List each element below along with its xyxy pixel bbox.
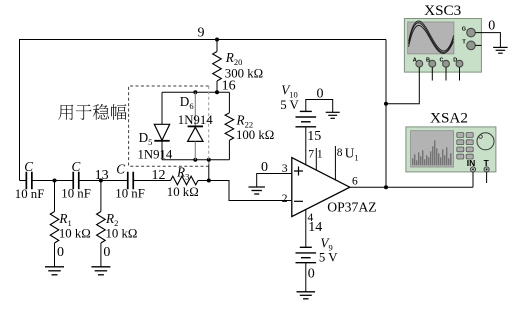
- svg-text:C: C: [24, 159, 33, 174]
- capacitor C1: [25, 172, 27, 190]
- wire C2 to node 13: [79, 180, 128, 182]
- ground V9: [297, 291, 316, 293]
- wire R1 top lead: [54, 181, 56, 212]
- svg-text:XSC3: XSC3: [424, 2, 461, 19]
- op-amp U1 OP37AZ: [292, 158, 350, 217]
- XSC3 terminal D: [456, 60, 463, 67]
- node 16 junction: [215, 90, 219, 94]
- node feedback bottom junction: [207, 158, 211, 162]
- svg-text:R3: R3: [176, 164, 189, 181]
- wire XSC3 C stub: [445, 67, 447, 80]
- svg-text:G: G: [462, 27, 466, 33]
- svg-text:5 V: 5 V: [319, 251, 338, 265]
- node 12 inverting junction: [207, 179, 211, 183]
- node 9 junction: [215, 38, 219, 42]
- op-amp minus sign: [294, 200, 303, 202]
- svg-text:D5: D5: [139, 130, 153, 147]
- wire R1 bottom lead: [54, 243, 56, 267]
- svg-text:5 V: 5 V: [280, 98, 299, 112]
- svg-text:9: 9: [198, 25, 205, 40]
- wire node 16 horizontal: [162, 91, 229, 93]
- svg-text:13: 13: [95, 168, 109, 183]
- svg-text:14: 14: [308, 220, 322, 235]
- svg-text:IN: IN: [467, 158, 476, 168]
- wire pin 1 stub: [315, 148, 317, 170]
- wire R3 to inverting node: [198, 180, 209, 182]
- wire pin 8 stub: [334, 146, 336, 180]
- svg-text:0: 0: [57, 245, 64, 260]
- svg-text:3: 3: [282, 163, 288, 175]
- battery V10: [300, 110, 312, 112]
- svg-text:R20: R20: [225, 50, 243, 67]
- svg-text:10 kΩ: 10 kΩ: [106, 226, 138, 240]
- XSA2 IN terminal: [470, 167, 475, 172]
- XSC3 terminal G: [467, 28, 476, 37]
- node output junction: [384, 185, 388, 189]
- svg-text:10 kΩ: 10 kΩ: [59, 226, 91, 240]
- instrument XSC3 oscilloscope icon: [404, 19, 481, 73]
- svg-text:0: 0: [103, 245, 110, 260]
- resistor R22: [225, 113, 234, 140]
- svg-text:16: 16: [222, 78, 236, 93]
- wire R20 bottom lead: [216, 81, 218, 92]
- wire XSC3 B stub: [431, 67, 433, 80]
- svg-text:12: 12: [152, 168, 166, 183]
- wire pin 7 supply lead: [305, 127, 307, 166]
- svg-text:1N914: 1N914: [178, 113, 213, 127]
- svg-text:10 nF: 10 nF: [15, 187, 45, 201]
- svg-text:A: A: [413, 57, 417, 63]
- XSA2 T terminal: [484, 167, 489, 172]
- node junction C1-R1: [53, 179, 57, 183]
- wire C1 to node C1R1: [32, 180, 73, 182]
- ground R2: [91, 266, 110, 268]
- svg-text:10 nF: 10 nF: [61, 187, 91, 201]
- label annotation chinese yong-yu-wen-fu: [58, 104, 126, 120]
- svg-text:XSA2: XSA2: [430, 110, 468, 127]
- wire R20 top lead: [216, 40, 218, 52]
- wire R22 top lead: [228, 92, 230, 113]
- node 13 junction: [99, 179, 103, 183]
- svg-text:10 kΩ: 10 kΩ: [167, 185, 199, 199]
- svg-text:OP37AZ: OP37AZ: [327, 200, 376, 215]
- svg-text:C: C: [440, 57, 444, 63]
- XSC3 terminal C: [443, 60, 450, 67]
- wire R2 bottom lead: [100, 243, 102, 267]
- wire XSC3 D stub: [459, 67, 461, 80]
- ground op-amp noninverting: [248, 186, 265, 188]
- ground XSC3: [493, 46, 508, 48]
- ground V10: [326, 111, 340, 113]
- svg-text:10 nF: 10 nF: [115, 187, 145, 201]
- svg-text:V10: V10: [281, 82, 298, 99]
- svg-text:C: C: [72, 159, 81, 174]
- wire bottom node to node 12: [208, 160, 210, 181]
- annotation dashed box amplitude stabilization: [129, 86, 209, 166]
- svg-text:100 kΩ: 100 kΩ: [236, 128, 274, 142]
- svg-text:B: B: [426, 57, 430, 63]
- wire D5 top lead: [161, 92, 163, 124]
- XSC3 terminal T: [467, 41, 476, 50]
- node D6 top junction: [193, 90, 197, 94]
- node A-wire junction: [384, 102, 388, 106]
- XSC3 terminal B: [429, 60, 436, 67]
- wire V9 to ground: [305, 263, 307, 292]
- resistor R3: [171, 176, 198, 185]
- wire XSC3 G to ground: [475, 33, 500, 48]
- wire left frame vertical: [19, 39, 21, 181]
- op-amp plus sign: [294, 167, 303, 176]
- wire XSA2 IN lead: [472, 172, 474, 187]
- svg-text:8: 8: [337, 147, 343, 159]
- wire op-amp noninverting to ground: [257, 174, 292, 188]
- XSC3 terminal A: [416, 60, 423, 67]
- svg-text:0: 0: [308, 267, 315, 282]
- capacitor C2: [72, 172, 74, 190]
- diode D6: [188, 125, 203, 127]
- wire D6 top lead: [194, 92, 196, 126]
- wire D5 bottom lead: [161, 142, 163, 160]
- svg-text:U1: U1: [345, 146, 359, 163]
- diode D5: [154, 124, 169, 140]
- svg-text:6: 6: [352, 176, 358, 188]
- wire RC ladder segment 1: [20, 180, 27, 182]
- wire D6 bottom lead: [194, 141, 196, 159]
- svg-text:0: 0: [488, 18, 495, 33]
- svg-text:D: D: [453, 57, 457, 63]
- wire V10 to ground: [306, 100, 333, 113]
- wire XSA2 T stub: [486, 172, 488, 183]
- node D6 bottom junction: [193, 158, 197, 162]
- wire pin 4 supply lead: [305, 209, 307, 247]
- wire R2 top lead: [100, 181, 102, 212]
- svg-text:7: 7: [308, 148, 314, 160]
- wire node 12 to op-amp inverting input: [209, 181, 291, 201]
- wire node 12 to R3: [133, 180, 170, 182]
- resistor R2: [97, 212, 106, 243]
- ground R1: [45, 266, 64, 268]
- wire output lead: [350, 186, 473, 188]
- instrument XSA2 spectrum analyzer icon: [406, 127, 496, 172]
- svg-text:0: 0: [261, 160, 268, 175]
- svg-text:2: 2: [282, 193, 288, 205]
- svg-text:1N914: 1N914: [138, 148, 173, 162]
- capacitor C3: [127, 172, 129, 190]
- svg-text:D6: D6: [180, 94, 194, 111]
- wire right vertical output to top: [385, 40, 387, 188]
- svg-text:0: 0: [317, 87, 324, 102]
- battery V9: [300, 246, 312, 248]
- wire R22 bottom lead: [228, 140, 230, 160]
- resistor R1: [50, 212, 59, 243]
- wire top feedback from output to node 9 run: [20, 39, 387, 41]
- wire XSC3 A to output net: [386, 67, 419, 104]
- svg-text:15: 15: [307, 129, 321, 144]
- svg-text:1: 1: [317, 148, 323, 160]
- wire XSC3 T stub: [475, 44, 481, 46]
- resistor R20: [213, 52, 222, 82]
- wire diode network bottom: [162, 159, 229, 161]
- svg-text:C: C: [116, 162, 125, 177]
